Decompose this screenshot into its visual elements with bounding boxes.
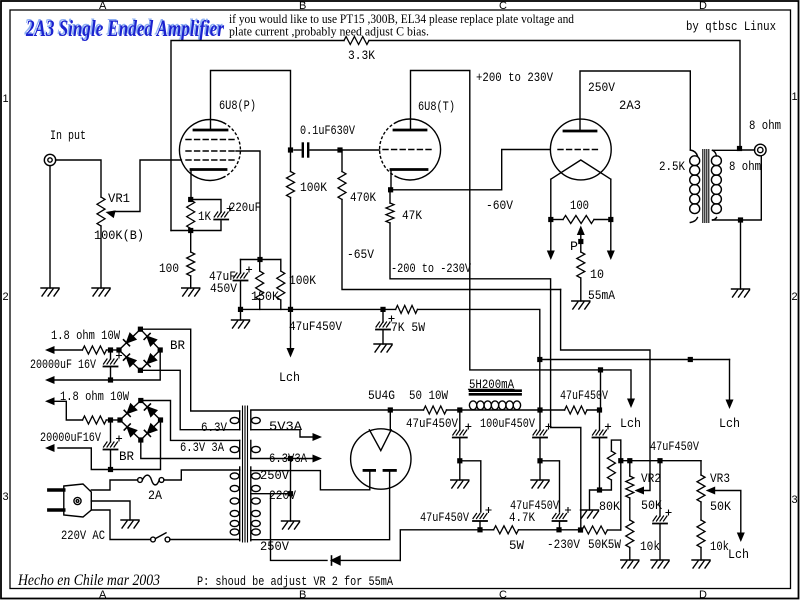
node BR2 cap bottom xyxy=(108,467,113,472)
V2 plate bar right xyxy=(384,469,395,472)
wire jack sleeve down xyxy=(49,166,51,288)
arrow heater return 2 xyxy=(45,444,55,452)
choke 5H200mA xyxy=(469,401,520,410)
node rail2 cap bottom xyxy=(537,458,542,463)
wire 220uF bypass loop xyxy=(171,200,221,231)
svg-text:+200 to 230V: +200 to 230V xyxy=(476,70,553,85)
svg-text:3.3K: 3.3K xyxy=(348,48,375,63)
V1 plate bar xyxy=(564,130,596,133)
capacitor 47uF450V bias1 xyxy=(473,508,491,530)
wire rail to filament xyxy=(389,410,391,430)
capacitor 47uF450V rail3 xyxy=(593,410,611,490)
capacitor 20000uF 16V first xyxy=(104,350,122,380)
T1 5V3A winding right xyxy=(251,411,260,430)
node +200 net junction xyxy=(598,367,603,372)
ground bus cap xyxy=(374,344,392,352)
wire +200 net to Lch arrow xyxy=(601,370,636,408)
svg-text:VR3: VR3 xyxy=(710,471,730,486)
svg-text:In put: In put xyxy=(50,128,86,143)
wire 10k VR3 to ground xyxy=(700,548,702,561)
capacitor 0.1uF630V xyxy=(294,144,340,157)
wire BR2 minus return xyxy=(58,420,161,470)
resistor 4.7K xyxy=(480,526,559,534)
wire U1 screen to dropping network xyxy=(236,151,260,260)
node BR2 bottom xyxy=(138,437,143,442)
svg-text:2: 2 xyxy=(3,291,9,303)
svg-text:80K: 80K xyxy=(599,499,620,514)
wire U2 cathode to 2A3 grid xyxy=(391,150,550,190)
resistor 10k VR2 xyxy=(626,520,634,548)
wire switch to primary bottom xyxy=(170,539,240,541)
wire 6.3V3A node down to ground xyxy=(290,459,292,522)
V2 plate bar left xyxy=(364,469,375,472)
wire V1 plate up over to output transformer xyxy=(580,71,690,150)
U1 cathode bar xyxy=(191,168,226,171)
svg-text:2.5K: 2.5K xyxy=(659,159,685,174)
node rail 5U4G tap xyxy=(388,407,393,412)
svg-text:220V AC: 220V AC xyxy=(61,528,105,543)
wire screen net horizontal xyxy=(241,259,281,261)
svg-text:VR2: VR2 xyxy=(641,471,661,486)
svg-text:50K: 50K xyxy=(641,498,662,513)
ground rail2 cap xyxy=(531,461,549,488)
node rail cap1 xyxy=(457,407,462,412)
svg-text:20000uF 16V: 20000uF 16V xyxy=(30,357,96,372)
U1 plate bar xyxy=(194,129,227,132)
svg-text:2A3: 2A3 xyxy=(619,98,641,113)
resistor 7K 5W xyxy=(396,305,418,313)
border zone numbers left xyxy=(3,93,9,503)
wire bus lower left xyxy=(241,308,396,310)
svg-text:A: A xyxy=(99,589,107,600)
resistor 100K plate side xyxy=(287,150,295,198)
ground 10k VR2 xyxy=(621,560,639,568)
V1 filament xyxy=(551,160,611,220)
svg-text:47uF450V: 47uF450V xyxy=(289,319,342,334)
wire plug live to fuse xyxy=(91,480,137,490)
resistor 100K second xyxy=(277,260,285,310)
svg-text:Lch: Lch xyxy=(719,416,740,431)
resistor 100 below cathode xyxy=(187,252,195,276)
wire U2 plate up over and down to +200 run xyxy=(411,71,601,370)
wire plate1 to HV tap top xyxy=(251,471,370,490)
svg-text:C: C xyxy=(499,589,507,600)
ground plug earth xyxy=(121,520,139,528)
svg-text:100: 100 xyxy=(159,261,179,276)
resistor 47K xyxy=(386,190,394,223)
node P test point xyxy=(578,239,583,244)
node BR1 left xyxy=(116,347,121,352)
power transformer T1 core xyxy=(243,406,248,542)
node bias bus left xyxy=(618,458,623,463)
ground below 100 xyxy=(182,288,200,296)
node BR1 right xyxy=(158,347,163,352)
svg-text:Lch: Lch xyxy=(620,416,641,431)
svg-text:47K: 47K xyxy=(402,208,422,223)
node BR1 cap top xyxy=(108,347,113,352)
node rail3 cap bottom xyxy=(597,487,602,492)
wire diode up to bias filter rail xyxy=(400,530,480,561)
AC plug prong top xyxy=(49,488,64,491)
arrow heater return 1 xyxy=(45,376,55,384)
T2 core xyxy=(703,150,709,223)
node U1 cathode bottom xyxy=(188,228,193,233)
resistor 1K cathode xyxy=(187,200,195,229)
svg-text:1.8 ohm 10W: 1.8 ohm 10W xyxy=(60,389,129,404)
node BR2 cap top xyxy=(108,417,113,422)
svg-text:55mA: 55mA xyxy=(588,288,615,303)
node U1 cathode top xyxy=(188,197,193,202)
wire BR1 minus return xyxy=(54,350,160,380)
svg-text:BR: BR xyxy=(170,338,185,353)
arrow VR3 wiper xyxy=(706,487,716,495)
svg-text:250V: 250V xyxy=(260,468,289,483)
feedback wire from cathode loop up and across top xyxy=(171,41,740,231)
node BR1 cap bottom xyxy=(108,377,113,382)
node bias cap2 xyxy=(556,527,561,532)
capacitor 220uF xyxy=(214,206,232,220)
U1 grid g2 dashes xyxy=(186,150,236,152)
resistor 10 xyxy=(577,252,585,278)
node bias bus VR2 xyxy=(627,458,632,463)
node BR1 top xyxy=(138,327,143,332)
node bias cap1 xyxy=(477,527,482,532)
wire 6.3V3A bottom tap arrow xyxy=(251,455,322,463)
ground rail1 cap xyxy=(451,461,469,488)
wire 5V3A bottom tap arrow xyxy=(251,430,322,441)
svg-text:VR1: VR1 xyxy=(108,191,130,206)
node secondary bottom xyxy=(738,217,743,222)
node bias bus cap xyxy=(657,458,662,463)
svg-text:100uF450V: 100uF450V xyxy=(480,416,535,431)
node bus cap mid xyxy=(380,307,385,312)
node secondary top xyxy=(737,146,742,151)
svg-text:6U8(P): 6U8(P) xyxy=(219,98,256,113)
fuse F1 2A xyxy=(138,475,164,485)
wire 10 to ground xyxy=(580,278,582,301)
wire Lch drop xyxy=(290,309,292,348)
svg-text:8 ohm: 8 ohm xyxy=(749,118,781,133)
svg-text:250V: 250V xyxy=(588,80,615,95)
node bleeder junction xyxy=(537,357,542,362)
svg-text:50K: 50K xyxy=(710,499,731,514)
wire BR1 bottom AC xyxy=(140,370,239,429)
node coupling cap right xyxy=(337,147,342,152)
switch SW1 xyxy=(151,533,170,542)
resistor 1.8 ohm 10W first xyxy=(54,346,119,354)
wire VR3 wiper to Lch arrow xyxy=(711,491,745,543)
output transformer T2 primary winding xyxy=(690,150,700,223)
svg-text:5W: 5W xyxy=(509,538,524,553)
ground secondary xyxy=(732,289,750,297)
wire filament left to hum pot xyxy=(551,219,563,221)
wire bias tap from 220V winding xyxy=(271,494,328,561)
VR1 wiper arrow xyxy=(105,208,116,218)
node filament left xyxy=(548,217,553,222)
resistor 3.3K feedback xyxy=(344,37,369,45)
svg-text:by qtbsc Linux: by qtbsc Linux xyxy=(686,19,776,34)
svg-text:-60V: -60V xyxy=(486,198,513,213)
T1 6.3V3A winding right xyxy=(251,440,260,458)
svg-text:-65V: -65V xyxy=(347,247,374,262)
T1 220V primary winding left xyxy=(230,467,239,541)
resistor 150K xyxy=(256,260,264,310)
svg-text:-230V: -230V xyxy=(547,537,580,552)
svg-text:5U4G: 5U4G xyxy=(368,388,395,403)
wire U2 cathode lead xyxy=(390,170,392,190)
svg-text:D: D xyxy=(699,589,707,600)
node primary bottom xyxy=(688,357,693,362)
svg-text:6U8(T): 6U8(T) xyxy=(418,99,455,114)
svg-text:3: 3 xyxy=(3,491,9,503)
diode bias rectifier xyxy=(332,556,401,565)
output jack 8 ohm xyxy=(755,144,767,156)
wire rail3 cap to ground xyxy=(590,490,600,510)
border zone letters bottom xyxy=(99,589,707,600)
wire 7K to bleeder drop xyxy=(418,309,540,410)
U2 cathode bar xyxy=(391,168,427,171)
wire plug neutral to switch xyxy=(91,510,150,540)
svg-text:10k: 10k xyxy=(640,539,660,554)
wire jack to VR1 top xyxy=(56,160,101,197)
potentiometer VR2 50K xyxy=(626,461,634,520)
svg-text:BR: BR xyxy=(119,449,134,464)
T2 secondary winding xyxy=(711,150,740,220)
V2 filament V xyxy=(369,430,391,451)
svg-text:47uF450V: 47uF450V xyxy=(406,416,458,431)
hum pot 100 xyxy=(563,216,594,224)
ground bias bus cap xyxy=(651,560,669,568)
hum pot wiper arrow xyxy=(577,226,585,253)
node rail cap2 xyxy=(537,407,542,412)
AC plug prong bottom xyxy=(49,508,64,511)
node rail end xyxy=(597,407,602,412)
wire +200 net down to rail xyxy=(600,370,602,410)
svg-text:Lch: Lch xyxy=(279,370,300,385)
svg-text:1: 1 xyxy=(3,93,9,105)
svg-text:3: 3 xyxy=(792,494,798,506)
wire VR1 bottom to ground xyxy=(100,226,102,288)
svg-text:P: P xyxy=(570,239,578,254)
node Lch tap xyxy=(288,307,293,312)
capacitor 47uF450V bus xyxy=(376,309,394,344)
node screen net xyxy=(257,257,262,262)
ground rail3 cap xyxy=(581,510,599,518)
node 6.3V3A tap xyxy=(288,456,293,461)
wire filament right to hum pot xyxy=(594,219,611,221)
svg-text:20000uF16V: 20000uF16V xyxy=(40,430,101,445)
svg-text:250V: 250V xyxy=(260,539,289,554)
wire jack sleeve down to secondary bottom xyxy=(741,156,762,220)
bridge BR2 diamond xyxy=(120,401,161,441)
node coupling cap left xyxy=(288,147,293,152)
BR2 diode top-left xyxy=(124,404,136,416)
AC plug pin marker xyxy=(74,497,81,504)
capacitor 20000uF16V second xyxy=(104,420,122,470)
border zone numbers right xyxy=(792,91,798,506)
ground 220V tap xyxy=(282,521,300,529)
wire B+ 250V run to primary xyxy=(540,359,730,361)
svg-text:8 ohm: 8 ohm xyxy=(729,159,761,174)
arrow filament right down xyxy=(607,220,615,261)
wire 10k VR2 to ground xyxy=(629,548,631,561)
svg-text:150K: 150K xyxy=(251,289,279,304)
ground 10k VR3 xyxy=(692,560,710,568)
border zone letters top xyxy=(99,0,707,12)
wire B+ rail xyxy=(251,409,600,411)
node -230V xyxy=(578,527,583,532)
capacitor 47uF450V bias bus xyxy=(653,461,671,560)
arrow filament left down xyxy=(547,220,555,261)
BR1 diode top-right xyxy=(144,333,156,345)
wire BR2 bottom AC xyxy=(141,440,240,459)
wire rail2 gnd node to bias cap2 xyxy=(540,461,560,512)
wire bias bus xyxy=(621,460,701,462)
arrow heater feed 2 xyxy=(45,397,55,405)
U2 grid wire from coupling cap xyxy=(340,149,380,151)
wire -65V run to VR2 wiper xyxy=(561,290,650,491)
svg-text:D: D xyxy=(699,0,707,12)
capacitor 100uF450V xyxy=(533,410,551,461)
svg-text:6.3V: 6.3V xyxy=(201,420,227,435)
potentiometer VR1 xyxy=(97,197,105,226)
svg-text:2A: 2A xyxy=(148,488,162,503)
bridge BR1 diamond xyxy=(119,329,160,370)
svg-text:1: 1 xyxy=(792,91,798,103)
svg-text:47uF450V: 47uF450V xyxy=(650,439,699,454)
wire 80K top to bias rail riser xyxy=(620,440,622,530)
svg-text:470K: 470K xyxy=(350,190,376,205)
svg-text:450V: 450V xyxy=(210,281,237,296)
resistor 1.8 ohm 10W second xyxy=(54,401,120,424)
T1 6.3V winding2 left xyxy=(230,440,239,458)
node BR2 left xyxy=(117,417,122,422)
input jack J1 xyxy=(44,154,55,165)
capacitor 47uF450V bias2 xyxy=(553,508,571,530)
svg-text:10k: 10k xyxy=(710,539,729,554)
svg-text:P: shoud be adjust VR 2 for 55: P: shoud be adjust VR 2 for 55mA xyxy=(197,574,393,589)
choke core bars xyxy=(470,391,521,395)
ground jack xyxy=(41,288,59,296)
arrow 250V to Lch xyxy=(726,360,734,410)
svg-text:47uF450V: 47uF450V xyxy=(420,510,469,525)
svg-text:100K: 100K xyxy=(289,273,316,288)
wire 470K down then right to -65V run xyxy=(342,200,561,290)
title text xyxy=(24,15,225,42)
BR1 diode top-left xyxy=(124,333,136,345)
svg-text:100: 100 xyxy=(570,198,589,213)
wire secondary top to jack xyxy=(740,149,755,151)
ground bus left stub xyxy=(232,309,250,328)
svg-text:47uF450V: 47uF450V xyxy=(560,388,608,403)
wire 220V tap xyxy=(251,493,291,495)
node BR2 top xyxy=(138,398,143,403)
tube U2 6U8(T) envelope xyxy=(380,119,441,180)
svg-text:2A3 Single Ended Amplifier: 2A3 Single Ended Amplifier xyxy=(25,16,225,41)
svg-text:50K5W: 50K5W xyxy=(588,537,621,552)
svg-text:Hecho en Chile mar 2003: Hecho en Chile mar 2003 xyxy=(17,572,160,589)
svg-text:100K: 100K xyxy=(300,180,327,195)
svg-text:-200 to -230V: -200 to -230V xyxy=(391,261,471,276)
svg-text:1.8 ohm 10W: 1.8 ohm 10W xyxy=(51,328,120,343)
node 220V tap xyxy=(288,491,293,496)
svg-text:1K: 1K xyxy=(198,209,211,224)
svg-text:B: B xyxy=(299,589,306,600)
arrow to Lch left channel xyxy=(287,348,295,358)
wire BR2 top AC xyxy=(141,401,240,441)
svg-text:6.3V 3A: 6.3V 3A xyxy=(180,440,224,455)
svg-text:5V3A: 5V3A xyxy=(269,419,302,434)
wire 100K down to bus xyxy=(290,198,292,310)
BR1 diode bottom-right xyxy=(144,354,156,366)
node U2 cathode xyxy=(388,187,393,192)
BR2 diode top-right xyxy=(144,404,156,416)
BR2 diode bottom-left xyxy=(124,424,136,436)
svg-text:10: 10 xyxy=(590,267,604,282)
svg-text:220uF: 220uF xyxy=(229,200,261,215)
ground VR1 xyxy=(92,288,110,296)
ground 10 resistor xyxy=(572,301,590,309)
svg-text:A: A xyxy=(99,0,107,12)
wire secondary bottom to ground xyxy=(740,220,742,289)
V1 grid dashes xyxy=(558,149,598,151)
BR2 diode bottom-right xyxy=(144,424,156,436)
resistor 47 dropping xyxy=(565,406,587,414)
wire 1K bottom to 100 to ground xyxy=(190,231,192,289)
AC plug body xyxy=(64,484,92,517)
resistor 10k VR3 xyxy=(697,520,705,548)
wire rail1 gnd node to bias cap1 xyxy=(460,461,481,512)
wire 47K to -200V run xyxy=(390,223,581,530)
wire fuse to primary top xyxy=(164,470,240,480)
svg-text:7K 5W: 7K 5W xyxy=(391,320,425,335)
wire U1 cathode lead xyxy=(190,170,192,200)
arrow heater feed 1 xyxy=(45,346,55,354)
resistor 50 10W xyxy=(424,406,447,414)
BR1 diode bottom-left xyxy=(124,354,136,366)
potentiometer VR3 50K xyxy=(697,461,705,520)
tube U1 6U8(P) envelope xyxy=(179,120,240,181)
U2 plate bar xyxy=(394,129,426,132)
capacitor 47uF450V rail1 xyxy=(453,410,471,461)
node BR2 right xyxy=(158,417,163,422)
U1 grid g1 dashes xyxy=(186,159,236,161)
wire BR1 top AC xyxy=(140,329,239,411)
wire VR1 wiper to grid xyxy=(114,160,181,212)
U2 grid dashes xyxy=(383,149,432,151)
T1 primary 6.3V winding1 left xyxy=(230,411,239,430)
tube V2 5U4G envelope xyxy=(351,429,411,489)
U1 grid g3 dashes xyxy=(186,139,236,141)
tube V1 2A3 envelope xyxy=(550,119,611,180)
wire U1 plate up and over to coupling node xyxy=(211,71,291,151)
wire plate2 to HV tap bottom xyxy=(251,472,390,540)
arrow VR2 wiper xyxy=(635,487,645,495)
node rail1 cap bottom xyxy=(457,458,462,463)
svg-text:0.1uF630V: 0.1uF630V xyxy=(300,123,355,138)
svg-text:50 10W: 50 10W xyxy=(409,388,448,403)
resistor 470K grid leak xyxy=(338,150,346,199)
resistor 80K xyxy=(600,440,621,490)
T1 HV winding right xyxy=(251,467,260,541)
node bus left xyxy=(238,307,243,312)
svg-text:Lch: Lch xyxy=(728,547,749,562)
svg-text:2: 2 xyxy=(792,291,798,303)
svg-text:47uF450V: 47uF450V xyxy=(510,498,559,513)
svg-text:plate current ,probably need a: plate current ,probably need adjust C bi… xyxy=(229,24,429,39)
wire plug earth xyxy=(91,501,130,520)
node BR1 bottom xyxy=(138,368,143,373)
